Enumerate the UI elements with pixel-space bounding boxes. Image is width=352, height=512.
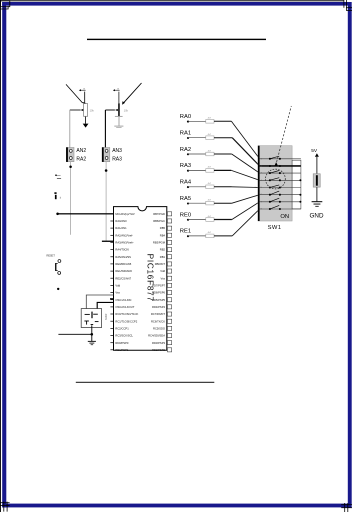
svg-text:RB2: RB2 [160, 248, 166, 252]
svg-text:RA2: RA2 [180, 147, 191, 153]
svg-text:RESET: RESET [46, 253, 55, 257]
svg-text:RD7/PSP7: RD7/PSP7 [152, 284, 166, 288]
svg-text:RA1/AN1: RA1/AN1 [115, 226, 127, 230]
svg-text:RE1/WR/AN6: RE1/WR/AN6 [115, 269, 132, 273]
svg-text:RA2: RA2 [76, 157, 86, 163]
svg-text:4MHz: 4MHz [104, 314, 107, 321]
svg-text:RB5: RB5 [160, 226, 166, 230]
svg-text:RA4/T0CKI: RA4/T0CKI [115, 248, 129, 252]
svg-text:RA3: RA3 [112, 157, 122, 163]
svg-text:RD0/PSP0: RD0/PSP0 [115, 341, 129, 345]
svg-text:RB3/PGM: RB3/PGM [153, 241, 166, 245]
svg-text:RA0: RA0 [180, 114, 191, 120]
svg-text:ON: ON [280, 214, 289, 220]
svg-text:RB4: RB4 [160, 233, 166, 237]
svg-text:SW1: SW1 [268, 225, 282, 231]
svg-text:RB7/PGD: RB7/PGD [153, 212, 165, 216]
svg-text:Vdd: Vdd [160, 269, 165, 273]
svg-text:RD4/PSP4: RD4/PSP4 [152, 305, 166, 309]
svg-text:10k: 10k [124, 109, 129, 113]
svg-text:RD3/PSP3: RD3/PSP3 [152, 341, 166, 345]
svg-text:AN3: AN3 [112, 148, 122, 154]
svg-text:RE2/CS/AN7: RE2/CS/AN7 [115, 276, 131, 280]
svg-text:RA2/AN2/Vref-: RA2/AN2/Vref- [115, 233, 133, 237]
svg-text:GND: GND [310, 213, 324, 220]
svg-text:RC3/SCK/SCL: RC3/SCK/SCL [115, 334, 133, 338]
svg-text:5V: 5V [311, 148, 318, 154]
svg-text:RA3/AN3/Vref+: RA3/AN3/Vref+ [115, 241, 134, 245]
svg-text:RA4: RA4 [180, 180, 192, 186]
svg-text:RD5/PSP5: RD5/PSP5 [152, 298, 166, 302]
svg-text:OSC2/CLKOUT: OSC2/CLKOUT [115, 305, 134, 309]
svg-text:10k: 10k [90, 109, 95, 113]
svg-text:RB0/INT: RB0/INT [155, 262, 166, 266]
svg-text:RC0/T1OSO/T1CK: RC0/T1OSO/T1CK [115, 312, 138, 316]
svg-text:RC7/RX/DT: RC7/RX/DT [151, 312, 166, 316]
svg-text:RA5: RA5 [180, 196, 191, 202]
svg-text:RD2/PSP2: RD2/PSP2 [152, 348, 166, 352]
svg-text:RE1: RE1 [180, 229, 191, 235]
svg-text:RC2/CCP1: RC2/CCP1 [115, 327, 129, 331]
svg-text:Vss: Vss [161, 276, 166, 280]
svg-text:RE0: RE0 [180, 212, 191, 218]
svg-text:Vss: Vss [115, 291, 120, 295]
svg-text:RC1/T1OSI/CCP2: RC1/T1OSI/CCP2 [115, 319, 137, 323]
svg-text:RA1: RA1 [180, 131, 191, 137]
svg-text:RA5/AN4/SS: RA5/AN4/SS [115, 255, 131, 259]
svg-text:AN2: AN2 [76, 148, 86, 154]
svg-text:RE0/RD/AN5: RE0/RD/AN5 [115, 262, 131, 266]
svg-text:RB6/PGC: RB6/PGC [153, 219, 165, 223]
svg-text:RA3: RA3 [180, 163, 191, 169]
svg-text:RA0/AN0: RA0/AN0 [115, 219, 127, 223]
svg-text:MCLR/Vpp/THV: MCLR/Vpp/THV [115, 212, 134, 216]
svg-text:RD1/PSP1: RD1/PSP1 [115, 348, 129, 352]
svg-text:RB1: RB1 [160, 255, 166, 259]
svg-text:RD6/PSP6: RD6/PSP6 [152, 291, 166, 295]
svg-text:RC5/SDO: RC5/SDO [153, 327, 165, 331]
svg-text:Vdd: Vdd [115, 284, 120, 288]
svg-text:RC4/SDI/SDA: RC4/SDI/SDA [148, 334, 165, 338]
svg-text:RC6/TX/CK: RC6/TX/CK [151, 319, 165, 323]
svg-text:OSC1/CLKIN: OSC1/CLKIN [115, 298, 131, 302]
